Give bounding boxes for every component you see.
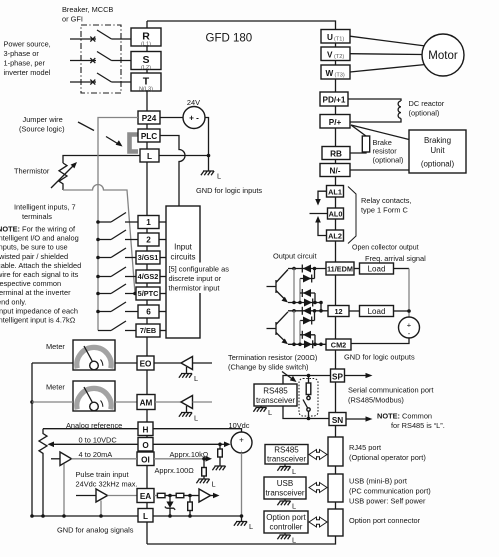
wire: out2 row B [300, 311, 315, 321]
switch: intelligent input 4/GS2 [98, 267, 136, 277]
arrow: O into source [220, 443, 225, 445]
breaker dashed enclosure [81, 25, 121, 93]
svg-text:end only.: end only. [0, 297, 26, 306]
svg-text:(RS485/Modbus): (RS485/Modbus) [348, 396, 404, 405]
transistor Q2 collector [276, 312, 288, 325]
wire: top rail from R to U [147, 21, 336, 30]
transistor Q2 emitter [276, 333, 286, 343]
breaker pole 2 blade [97, 52, 131, 61]
wire: bottom analog L row left [32, 515, 138, 517]
terminal P/+ [320, 115, 350, 129]
switch: intelligent input 7/EB [98, 321, 136, 331]
svg-text:O: O [142, 441, 149, 450]
svg-text:Meter: Meter [46, 383, 65, 392]
resistor: termination 200 ohm [308, 376, 310, 384]
op-amp: EA internal [199, 489, 211, 502]
wire: O row right [153, 443, 220, 445]
terminal W(T3) [321, 65, 350, 79]
svg-text:AL2: AL2 [328, 232, 342, 241]
svg-text:(optional): (optional) [409, 109, 440, 118]
terminal P24 [138, 111, 160, 124]
wire: out1 bottom row [288, 302, 321, 304]
wire: meters left rail [31, 363, 33, 516]
wire: out2 bottom row to CM2 [288, 343, 326, 345]
node: OI branch [202, 457, 206, 461]
svg-text:Option port: Option port [266, 513, 306, 522]
svg-text:3/GS1: 3/GS1 [138, 253, 159, 262]
svg-text:Breaker, MCCB: Breaker, MCCB [62, 5, 113, 14]
ground: AM amp [186, 406, 188, 413]
svg-text:.: . [241, 447, 243, 454]
node: common rail at input 4/GS2 [96, 275, 100, 279]
diode: out2 row B [303, 317, 311, 325]
node: OI amp gnd [62, 514, 66, 518]
diode: out2 row A [303, 307, 311, 315]
svg-text:5/PTC: 5/PTC [138, 289, 159, 298]
svg-text:Relay contacts,: Relay contacts, [361, 196, 412, 205]
svg-text:L: L [292, 536, 296, 545]
wire: 1 to input circuits [159, 221, 166, 223]
svg-text:(L1): (L1) [141, 42, 151, 48]
wire: EA amp out to EA (gray) [108, 495, 138, 497]
op-amp: 4-20mA buffer [60, 452, 72, 466]
svg-text:terminal at the inverter: terminal at the inverter [0, 288, 71, 297]
terminal OI [137, 452, 154, 466]
svg-text:SN: SN [332, 416, 343, 425]
terminal O [138, 438, 153, 452]
svg-text:wire for each signal to its: wire for each signal to its [0, 270, 79, 279]
USB transceiver [264, 477, 306, 499]
svg-text:24V: 24V [187, 98, 200, 107]
jumper wire PLC to L (gray) [130, 135, 139, 152]
switch: termination slide [308, 395, 310, 397]
terminal PLC [138, 129, 160, 142]
wire: AM amp out (gray) [193, 401, 213, 403]
terminal EO [137, 356, 154, 370]
svg-text:L: L [292, 502, 296, 511]
wire: OI amp ground drop (gray) [63, 464, 65, 516]
node: common rail at input 5/PTC [96, 292, 100, 296]
svg-text:transceiver: transceiver [256, 396, 295, 405]
svg-text:3-phase or: 3-phase or [4, 49, 40, 58]
wire: N/- to braking unit [350, 169, 409, 171]
terminal 1 [138, 216, 159, 229]
wire: 7/EB to input circuits [160, 330, 166, 332]
wire: EO amp out [193, 362, 213, 364]
node: supply join [407, 309, 411, 313]
switch: intelligent input 6 [98, 302, 138, 312]
svg-text:(optional): (optional) [421, 160, 455, 169]
svg-text:N(L3): N(L3) [139, 87, 153, 93]
svg-text:(L2): (L2) [141, 65, 151, 71]
wire: P/+ to brake resistor [351, 125, 366, 136]
breaker pole 1 X mark [90, 37, 95, 42]
svg-text:U: U [327, 33, 333, 42]
wire: SP to RS485 transceiver [283, 376, 331, 385]
svg-text:or GFI: or GFI [62, 15, 83, 24]
wire: 5/PTC to input circuits [160, 293, 166, 295]
terminal AM [137, 395, 155, 410]
node: common rail at input 6 [96, 310, 100, 314]
wire: EA amp input stub [76, 495, 96, 497]
potentiometer wiper arrow [48, 442, 55, 448]
svg-text:1: 1 [146, 218, 151, 227]
Option connector [328, 509, 343, 536]
svg-text:Serial communication port: Serial communication port [348, 386, 433, 395]
svg-text:GFD 180: GFD 180 [206, 33, 253, 45]
svg-text:+ -: + - [189, 114, 199, 123]
svg-text:terminals: terminals [22, 212, 52, 221]
wire: 3/GS1 to input circuits [160, 257, 166, 259]
svg-text:intelligent I/O and analog: intelligent I/O and analog [0, 234, 79, 243]
terminal 12 [328, 306, 349, 317]
diode: out2 row D [304, 340, 312, 348]
breaker pole 2 lead wire [70, 60, 96, 62]
breaker pole 1 lead wire [70, 38, 96, 40]
svg-text:OI: OI [141, 455, 150, 464]
wire: OI amp input stub [51, 458, 60, 460]
meter 1 [73, 340, 115, 370]
svg-text:Open collector output: Open collector output [352, 245, 419, 252]
svg-text:H: H [143, 425, 149, 434]
svg-text:7/EB: 7/EB [140, 326, 156, 335]
double arrow: option [309, 517, 327, 527]
svg-text:Meter: Meter [46, 342, 65, 351]
svg-text:L: L [292, 467, 296, 476]
svg-text:AL0: AL0 [329, 210, 343, 219]
svg-text:4/GS2: 4/GS2 [138, 272, 159, 281]
load 2 box [360, 306, 394, 317]
node: pot bottom [41, 514, 45, 518]
wire: supply to CM2 [351, 338, 409, 344]
arrow to jumper [106, 137, 120, 146]
terminal V(T2) [321, 47, 350, 61]
svg-text:EO: EO [140, 360, 152, 369]
svg-text:Apprx.100Ω: Apprx.100Ω [155, 466, 195, 475]
svg-text:PD/+1: PD/+1 [323, 96, 346, 105]
svg-text:[5] configurable as: [5] configurable as [169, 265, 230, 274]
svg-text:thermistor input: thermistor input [169, 284, 220, 293]
wire: brake resistor to RB [351, 152, 367, 153]
svg-text:PLC: PLC [141, 132, 157, 141]
svg-text:RS485: RS485 [263, 387, 288, 396]
svg-text:RJ45 port: RJ45 port [349, 443, 381, 452]
transistor Q1 base [267, 280, 277, 293]
wire: pulse amp ground drop (gray) [100, 501, 102, 517]
svg-text:Termination resistor (200Ω): Termination resistor (200Ω) [228, 353, 317, 362]
svg-text:RB: RB [330, 150, 342, 159]
wire: AM row left (gray) [32, 401, 137, 403]
svg-text:(Source logic): (Source logic) [19, 125, 65, 134]
svg-text:cable. Attach the shielded: cable. Attach the shielded [0, 261, 81, 270]
node: L joins ground [207, 154, 211, 158]
ground: logic inputs [201, 171, 214, 175]
svg-text:DC reactor: DC reactor [409, 99, 445, 108]
wire: out2 gray drop a [293, 311, 295, 345]
wire: out2 top row [288, 310, 328, 312]
terminal 2 [138, 233, 159, 246]
wire: P24 to 24V source [160, 117, 183, 119]
arrow: OI input direction [204, 458, 207, 460]
svg-text:L: L [194, 374, 198, 383]
RS485 transceiver (serial) [254, 384, 297, 406]
node: out1 top a [292, 267, 296, 271]
terminal 11/EDM [326, 262, 354, 275]
svg-text:intelligent input is 4.7kΩ: intelligent input is 4.7kΩ [0, 316, 76, 325]
relay common line [310, 213, 328, 215]
svg-text:L: L [143, 512, 148, 521]
transistor Q2 base [267, 322, 277, 335]
svg-text:transceiver: transceiver [267, 455, 306, 464]
svg-text:P24: P24 [142, 114, 157, 123]
svg-text:Intelligent inputs, 7: Intelligent inputs, 7 [14, 203, 76, 212]
terminal PD/+1 [320, 92, 348, 106]
node: thermistor joins 5/PTC [133, 292, 137, 296]
svg-text:GND for logic inputs: GND for logic inputs [196, 186, 262, 195]
svg-text:transceiver: transceiver [265, 489, 304, 498]
svg-text:GND for logic outputs: GND for logic outputs [344, 353, 415, 362]
ground: serial transceiver [260, 406, 262, 408]
terminal N/- [320, 164, 350, 177]
wire: analog L row right [153, 515, 242, 517]
ground: RJ45 transceiver [284, 464, 286, 467]
svg-text:discrete input or: discrete input or [169, 274, 222, 283]
wire: L terminal to ground node [159, 155, 209, 157]
op-amp: pulse train buffer [96, 489, 108, 502]
terminal AL0 [328, 208, 344, 219]
terminal S [131, 52, 161, 72]
svg-text:Output circuit: Output circuit [273, 252, 317, 261]
ground: USB transceiver [284, 499, 286, 501]
wire: out1 gray drop b [299, 279, 301, 303]
terminal H [138, 422, 153, 436]
terminal AL2 [327, 230, 344, 241]
svg-text:L: L [268, 408, 272, 417]
svg-text:inputs, be sure to use: inputs, be sure to use [0, 243, 68, 252]
svg-text:(optional): (optional) [373, 156, 404, 165]
motor M1 [422, 34, 464, 76]
svg-text:Motor: Motor [428, 50, 458, 62]
USB connector [328, 474, 343, 502]
nodes: out1 bottom [292, 301, 296, 305]
node: common rail at input 2 [96, 238, 100, 242]
svg-text:L: L [194, 414, 198, 423]
node: EA resistor tap [188, 494, 192, 498]
node: termination resistor top [307, 374, 311, 378]
leader line jumper [78, 122, 94, 131]
terminal T [131, 73, 161, 93]
24V source circle [183, 107, 205, 129]
svg-text:USB: USB [277, 479, 293, 488]
wire: left terminal column rail [146, 21, 148, 544]
terminal 4/GS2 [136, 270, 160, 283]
breaker pole 2 X mark [90, 58, 95, 63]
svg-text:24Vdc 32kHz max.: 24Vdc 32kHz max. [76, 480, 138, 489]
node: EA diode to L [168, 514, 172, 518]
op-amp: EO buffer [181, 357, 193, 370]
wire: L to thermistor [63, 156, 140, 164]
svg-text:L: L [147, 152, 152, 161]
svg-text:Load: Load [368, 265, 386, 274]
node: AM row on rail [30, 400, 34, 404]
node: common rail at input 3/GS1 [96, 256, 100, 260]
terminal L (logic) [140, 149, 159, 162]
wire: transceiver to SN [283, 406, 329, 419]
svg-text:Option port connector: Option port connector [349, 516, 421, 525]
wire: to EA amp [184, 495, 199, 497]
RJ45 connector [328, 437, 343, 466]
terminal L (analog) [138, 509, 153, 523]
svg-text:1-phase, per: 1-phase, per [4, 59, 46, 68]
svg-text:L: L [217, 172, 221, 181]
svg-text:GND for analog signals: GND for analog signals [57, 526, 134, 535]
node: O branch [218, 443, 222, 447]
svg-text:N/-: N/- [330, 167, 341, 176]
svg-text:6: 6 [146, 308, 151, 317]
svg-text:circuits: circuits [171, 253, 196, 262]
switch: intelligent input 2 [98, 230, 138, 240]
breaker pole 3 X mark [90, 80, 95, 85]
relay contact AL2 arrow [318, 220, 327, 236]
terminal R [131, 28, 161, 48]
diode: out1 row A [303, 265, 311, 273]
arrow: SN [346, 418, 367, 420]
switch: intelligent input 1 [98, 213, 138, 223]
svg-text:2: 2 [146, 236, 151, 245]
relay contact AL1 arrow [318, 191, 327, 201]
wire: right terminal column rail [335, 43, 337, 536]
svg-text:0 to 10VDC: 0 to 10VDC [79, 436, 118, 445]
wire: bottom return rail L to option port [147, 536, 336, 544]
10Vdc source circle [231, 432, 252, 454]
svg-text:CM2: CM2 [331, 341, 346, 350]
svg-text:Thermistor: Thermistor [14, 167, 50, 176]
terminal AL1 [327, 186, 344, 198]
terminal SP [331, 369, 345, 382]
svg-text:AL1: AL1 [328, 187, 342, 196]
switch: intelligent input 3/GS1 [98, 248, 136, 258]
node: EA diode tap [168, 494, 172, 498]
motor wires [350, 36, 426, 72]
resistor: EA series 2 [176, 493, 184, 497]
wire: AM to amp (gray) [155, 401, 181, 403]
svg-text:(PC communication port): (PC communication port) [349, 487, 431, 496]
svg-text:11/EDM: 11/EDM [327, 264, 353, 273]
resistor: EA shunt [189, 496, 191, 503]
diode: out1 row B [303, 275, 311, 283]
svg-text:4 to 20mA: 4 to 20mA [79, 450, 113, 459]
double arrow: RJ45 [309, 450, 327, 460]
white mask for [5] note over box edge [168, 263, 239, 294]
switch: intelligent input 5/PTC [98, 284, 136, 294]
node: EA shunt to L [188, 514, 192, 518]
wire: H row [43, 428, 138, 430]
breaker pole 3 blade [97, 73, 131, 82]
svg-text:(T3): (T3) [335, 72, 345, 78]
wire: EO to amp [154, 362, 181, 364]
svg-text:(T2): (T2) [334, 54, 344, 60]
svg-text:L: L [212, 480, 216, 489]
node: link at 12 row [319, 309, 323, 313]
svg-text:AM: AM [140, 399, 153, 408]
wire: DC reactor top [348, 99, 401, 101]
diode: out1 row D [304, 299, 312, 307]
terminal U(T1) [321, 30, 350, 44]
svg-text:controller: controller [270, 523, 303, 532]
ground: EO amp [186, 367, 188, 374]
wire: 6 to input circuits [159, 311, 166, 313]
wire: load1 to supply (gray drop) [394, 268, 410, 270]
svg-text:resistor: resistor [373, 147, 398, 156]
svg-text:(Change by slide switch): (Change by slide switch) [228, 363, 309, 372]
svg-text:NOTE: For the wiring of: NOTE: For the wiring of [0, 225, 76, 234]
inductor: DC reactor coil [398, 101, 401, 118]
wire: H to 10Vdc source [153, 429, 242, 432]
RS485 transceiver (RJ45) [265, 445, 308, 465]
svg-text:P/+: P/+ [329, 118, 342, 127]
svg-text:Jumper wire: Jumper wire [23, 115, 63, 124]
wire: 24V source down to logic ground [205, 118, 209, 171]
arrow: EA amp out [211, 495, 215, 497]
node: rail corner [30, 514, 34, 518]
terminal 5/PTC [136, 287, 160, 300]
wire: PLC to input circuits (hops over L wire) [160, 136, 185, 207]
ground: 100 ohm [196, 479, 209, 483]
svg-text:Pulse train input: Pulse train input [76, 470, 129, 479]
potentiometer: analog reference [39, 429, 47, 516]
nodes: out2 top [292, 309, 296, 313]
svg-text:Input impedance of each: Input impedance of each [0, 306, 78, 315]
resistor: EA series 1 [157, 493, 165, 497]
ground: analog L [241, 516, 243, 522]
braking unit box [409, 130, 466, 173]
wire: load2 to supply [394, 310, 410, 312]
wire: DC reactor bottom to P/+ [351, 118, 402, 122]
svg-text:NOTE: Common: NOTE: Common [377, 412, 432, 421]
thermistor arrow [51, 165, 74, 188]
svg-text:USB (mini-B) port: USB (mini-B) port [349, 477, 407, 486]
svg-text:for RS485 is “L”.: for RS485 is “L”. [391, 421, 445, 430]
wire: between EA resistors [165, 495, 176, 497]
NOTE paragraph [0, 225, 81, 325]
svg-text:RS485: RS485 [274, 446, 299, 455]
svg-text:+: + [239, 436, 244, 445]
svg-text:Freq. arrival signal: Freq. arrival signal [365, 254, 426, 263]
svg-text:EA: EA [140, 492, 151, 501]
svg-text:inverter model: inverter model [4, 68, 51, 77]
resistor: brake resistor [362, 136, 369, 152]
op-amp: AM buffer [181, 396, 193, 409]
node: out1 top b [313, 267, 317, 271]
diode: EA clamp zener [169, 496, 171, 502]
svg-text:L: L [249, 522, 253, 531]
meter 2 [73, 381, 115, 411]
resistor: 100 ohm [203, 459, 205, 468]
terminal RB [322, 147, 350, 160]
breaker pole 1 blade [97, 30, 131, 39]
diode: out1 row C [303, 289, 311, 297]
node: termination resistor bottom [307, 417, 311, 421]
bracket: relay contacts [348, 187, 356, 244]
svg-text:Unit: Unit [430, 146, 445, 155]
wire: EA row right (gray) [154, 495, 158, 497]
node: common rail at input 1 [96, 220, 100, 224]
wire: out1 row B [300, 269, 315, 279]
terminal EA [137, 489, 154, 503]
thermistor zigzag [59, 163, 67, 190]
wire: out1 gray drop a [293, 269, 295, 303]
wire: out1 to out2 link [320, 303, 322, 311]
